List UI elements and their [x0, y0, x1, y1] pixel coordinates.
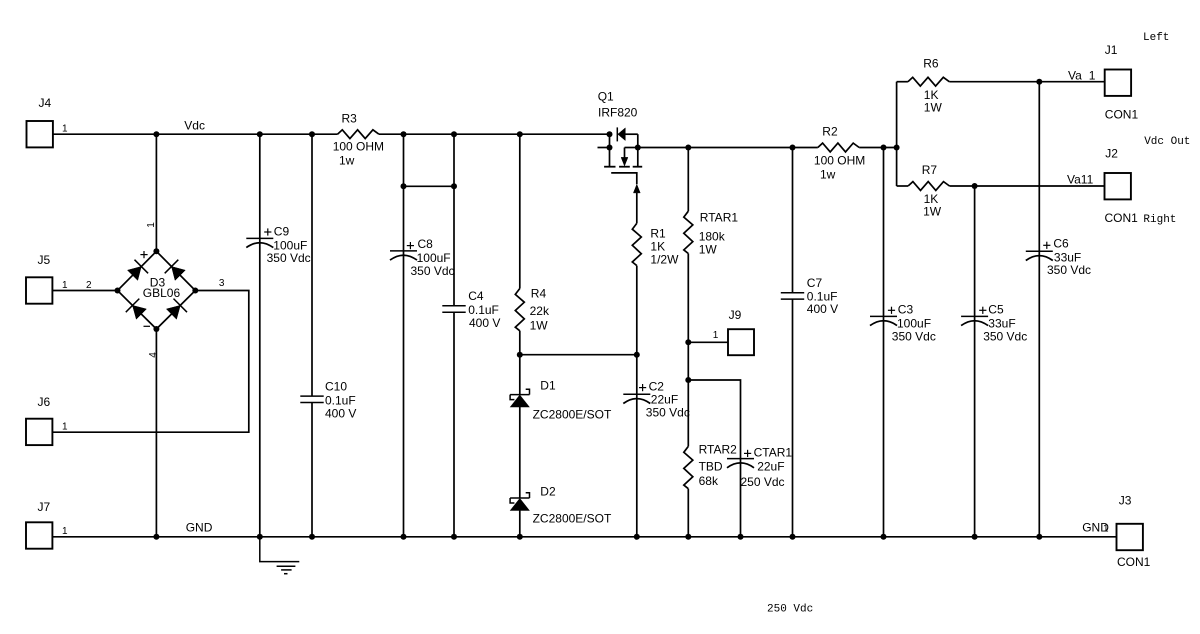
wire C3 line	[883, 148, 885, 537]
svg-text:1W: 1W	[699, 243, 718, 257]
svg-text:C7: C7	[807, 276, 823, 290]
capacitor C8	[390, 237, 455, 278]
node Vdc rail junctions	[153, 131, 612, 137]
svg-text:R1: R1	[650, 227, 666, 241]
svg-text:1: 1	[146, 222, 157, 228]
pin 1 label bridge (rotated)	[146, 222, 157, 228]
note 250 Vdc	[767, 604, 813, 616]
svg-text:R3: R3	[342, 111, 358, 125]
connector J6	[26, 395, 68, 445]
GND rail junctions	[153, 534, 1042, 540]
wire C9 line	[259, 134, 261, 537]
wire R1 to C2	[636, 266, 638, 537]
wire R2 to branch	[859, 145, 899, 151]
wire R7 to J2	[950, 183, 1105, 189]
svg-text:4: 4	[148, 352, 159, 358]
svg-text:C10: C10	[325, 379, 347, 393]
resistor R2	[814, 124, 865, 181]
svg-text:0.1uF: 0.1uF	[807, 289, 838, 303]
capacitor C7	[781, 276, 838, 316]
svg-text:100 OHM: 100 OHM	[333, 140, 384, 154]
svg-text:0.1uF: 0.1uF	[325, 393, 356, 407]
net label GND	[186, 520, 213, 534]
note Vdc Out	[1144, 136, 1190, 148]
svg-text:Vdc: Vdc	[184, 118, 205, 132]
svg-text:C6: C6	[1053, 237, 1069, 251]
wire J5 to bridge pin2	[53, 280, 118, 291]
capacitor C2	[623, 379, 690, 419]
svg-text:3: 3	[219, 278, 225, 289]
svg-text:R2: R2	[822, 124, 838, 138]
svg-text:Vdc Out: Vdc Out	[1144, 136, 1190, 148]
svg-text:1W: 1W	[924, 100, 943, 114]
resistor RTAR2	[684, 443, 737, 489]
Q1 drain stub	[609, 134, 611, 167]
svg-text:33uF: 33uF	[988, 316, 1015, 330]
bridge diode top-right	[165, 260, 186, 281]
connector J9	[728, 308, 754, 355]
capacitor C10	[300, 379, 356, 420]
connector J3	[1117, 494, 1151, 570]
svg-text:100 OHM: 100 OHM	[814, 153, 865, 167]
svg-text:350 Vdc: 350 Vdc	[646, 405, 690, 419]
svg-text:1: 1	[1089, 68, 1096, 82]
svg-text:D1: D1	[540, 379, 556, 393]
svg-text:100uF: 100uF	[897, 316, 931, 330]
net label Vdc	[184, 118, 205, 132]
connector J1	[1105, 43, 1139, 121]
diode bridge D3 outline	[118, 251, 196, 329]
wire rail to RTAR1	[687, 148, 689, 212]
Q1 body diode	[617, 127, 638, 147]
note Right	[1143, 214, 1176, 226]
svg-text:1: 1	[713, 330, 719, 341]
svg-text:Right: Right	[1143, 214, 1176, 226]
svg-text:J9: J9	[729, 308, 742, 322]
resistor R6	[908, 57, 949, 115]
svg-text:J7: J7	[38, 500, 51, 514]
svg-text:Va11: Va11	[1067, 172, 1094, 186]
capacitor C5	[961, 303, 1027, 344]
svg-text:100uF: 100uF	[273, 238, 307, 252]
svg-text:1W: 1W	[923, 205, 942, 219]
svg-text:R6: R6	[923, 57, 939, 71]
svg-text:350 Vdc: 350 Vdc	[411, 264, 455, 278]
svg-text:R7: R7	[922, 163, 938, 177]
svg-text:1K: 1K	[650, 240, 665, 254]
svg-text:R4: R4	[531, 286, 547, 300]
Q1 gate arrow	[633, 184, 640, 223]
svg-text:2: 2	[86, 280, 92, 291]
svg-text:C2: C2	[649, 379, 665, 393]
svg-text:C9: C9	[274, 224, 290, 238]
svg-text:400 V: 400 V	[325, 406, 356, 420]
wire CTAR1 branch	[688, 380, 740, 537]
zener diode D1	[510, 379, 612, 422]
svg-text:400 V: 400 V	[469, 316, 500, 330]
svg-text:1: 1	[62, 280, 68, 291]
svg-text:1w: 1w	[339, 153, 355, 167]
connector J5	[26, 253, 68, 304]
wire C10 line	[311, 134, 313, 537]
net label Va11	[1067, 172, 1094, 186]
wire C4 line	[453, 134, 455, 537]
wire C6 line	[1038, 82, 1040, 537]
svg-text:68k: 68k	[699, 474, 719, 488]
wire bias junction tie	[520, 352, 640, 358]
connector J4	[27, 96, 69, 147]
svg-text:J6: J6	[38, 395, 51, 409]
svg-text:1: 1	[1103, 524, 1109, 535]
svg-text:TBD: TBD	[699, 460, 723, 474]
resistor R4	[515, 286, 550, 332]
wire J4 to Vdc rail	[53, 133, 338, 135]
svg-text:C4: C4	[468, 289, 484, 303]
svg-text:ZC2800E/SOT: ZC2800E/SOT	[533, 408, 612, 422]
svg-text:1W: 1W	[530, 319, 549, 333]
svg-text:350 Vdc: 350 Vdc	[1047, 263, 1091, 277]
wire bridge pin3 to J6	[53, 278, 249, 432]
svg-text:CTAR1: CTAR1	[754, 446, 793, 460]
wire bridge pin4 to GND rail	[148, 329, 159, 537]
wire Vdc to R4	[519, 134, 521, 288]
resistor R7	[908, 163, 949, 218]
svg-text:C3: C3	[898, 303, 914, 317]
svg-text:22uF: 22uF	[757, 460, 784, 474]
Q1 gate stub	[598, 145, 613, 151]
resistor R1	[632, 223, 679, 266]
svg-text:350 Vdc: 350 Vdc	[892, 329, 936, 343]
transistor Q1 label	[598, 89, 638, 119]
bridge polarity marks	[140, 251, 150, 326]
svg-text:180k: 180k	[699, 230, 726, 244]
svg-text:22k: 22k	[530, 304, 550, 318]
svg-text:J3: J3	[1119, 494, 1132, 508]
wire to J9	[688, 330, 728, 342]
wire C7 line	[792, 148, 794, 537]
svg-text:Q1: Q1	[598, 89, 614, 103]
svg-text:J4: J4	[39, 96, 52, 110]
wire Q1 source rail	[638, 145, 818, 151]
svg-text:250 Vdc: 250 Vdc	[741, 475, 785, 489]
svg-text:Va: Va	[1068, 68, 1082, 82]
wire branch to R7	[897, 185, 909, 187]
bridge nodes	[115, 248, 199, 332]
wire branch to R6	[897, 81, 908, 83]
wire R3 to Q1	[379, 133, 610, 135]
svg-text:C8: C8	[418, 237, 434, 251]
connector J7	[26, 500, 68, 549]
wire D1 to D2	[519, 407, 521, 498]
ground symbol	[260, 537, 300, 574]
svg-text:33uF: 33uF	[1054, 250, 1081, 264]
svg-text:IRF820: IRF820	[598, 105, 638, 119]
note Left	[1143, 32, 1169, 44]
bridge diode bottom-left	[126, 299, 147, 320]
wire GND rail	[53, 536, 1117, 538]
resistor RTAR1	[684, 211, 739, 257]
wire D2 to GND rail	[519, 510, 521, 536]
capacitor CTAR1	[727, 446, 792, 489]
svg-text:RTAR2: RTAR2	[699, 443, 738, 457]
svg-text:CON1: CON1	[1105, 211, 1139, 225]
capacitor C3	[870, 303, 936, 344]
wire RTAR1 to RTAR2	[685, 254, 691, 447]
net label Va_1	[1068, 68, 1096, 82]
svg-text:250 Vdc: 250 Vdc	[767, 604, 813, 616]
label D3 GBL06	[143, 276, 181, 300]
capacitor C9	[246, 224, 310, 265]
svg-text:350 Vdc: 350 Vdc	[267, 251, 311, 265]
wire C8 line	[403, 134, 405, 537]
wire output branch vertical	[896, 82, 898, 186]
wire R4 to D1	[517, 331, 523, 395]
svg-text:350 Vdc: 350 Vdc	[983, 329, 1027, 343]
wire Vdc rail to bridge pin1	[155, 134, 157, 251]
svg-text:J1: J1	[1105, 43, 1118, 57]
svg-text:100uF: 100uF	[417, 251, 451, 265]
svg-text:RTAR1: RTAR1	[700, 211, 739, 225]
net label GND at J3	[1082, 520, 1109, 534]
wire C8-C4 cross tie	[401, 183, 458, 189]
svg-text:1/2W: 1/2W	[650, 253, 679, 267]
svg-text:ZC2800E/SOT: ZC2800E/SOT	[533, 512, 612, 526]
bridge diode bottom-right	[166, 299, 187, 320]
connector J2	[1105, 147, 1139, 225]
svg-text:1: 1	[62, 526, 68, 537]
resistor R3	[333, 111, 384, 167]
svg-text:CON1: CON1	[1117, 555, 1151, 569]
svg-text:GND: GND	[186, 520, 213, 534]
wire C5 line	[974, 186, 976, 537]
svg-text:22uF: 22uF	[651, 392, 678, 406]
svg-text:1w: 1w	[820, 167, 836, 181]
bridge diode top-left	[128, 260, 149, 281]
capacitor C6	[1026, 237, 1091, 278]
svg-text:1: 1	[62, 124, 68, 135]
svg-text:D2: D2	[540, 485, 556, 499]
svg-text:0.1uF: 0.1uF	[468, 303, 499, 317]
zener diode D2	[510, 485, 612, 526]
Q1 gate electrode	[611, 173, 637, 184]
wire RTAR2 to GND	[687, 489, 689, 537]
svg-text:CON1: CON1	[1105, 108, 1139, 122]
capacitor C4	[442, 289, 500, 330]
Q1 channel bars	[604, 148, 642, 167]
svg-text:J5: J5	[38, 253, 51, 267]
svg-text:400 V: 400 V	[807, 302, 838, 316]
svg-text:Left: Left	[1143, 32, 1169, 44]
svg-text:1: 1	[62, 422, 68, 433]
svg-text:C5: C5	[988, 303, 1004, 317]
wire R6 to J1	[949, 79, 1104, 85]
svg-text:GBL06: GBL06	[143, 286, 181, 300]
Q1 source node	[635, 145, 641, 151]
svg-text:J2: J2	[1105, 147, 1118, 161]
Q1 source arrow branch	[621, 148, 638, 166]
